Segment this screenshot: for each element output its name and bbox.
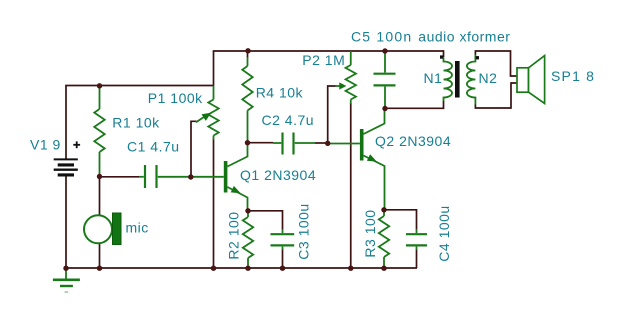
wire N2 top to speaker	[475, 51, 517, 76]
resistor R1	[94, 87, 104, 175]
svg-text:N1: N1	[424, 70, 443, 86]
node Q1 emitter	[245, 208, 250, 213]
svg-text:P1 100k: P1 100k	[148, 90, 203, 106]
wire mic top	[99, 177, 101, 216]
node mic/R1/C1	[97, 174, 102, 179]
ground	[53, 268, 80, 292]
svg-text:R1 10k: R1 10k	[112, 115, 160, 131]
wire battery top vertical	[65, 86, 67, 160]
node Q2 base	[325, 141, 330, 146]
svg-text:mic: mic	[126, 220, 149, 236]
wire collector node to C2	[248, 142, 274, 144]
node P1 ground	[211, 266, 216, 271]
battery plus sign	[73, 141, 80, 148]
potentiometer P2	[335, 51, 356, 104]
resistor R2	[243, 212, 253, 267]
wire riser to top rail	[213, 51, 215, 86]
wire battery bottom vertical	[65, 177, 67, 269]
node Q1 base	[188, 174, 193, 179]
svg-text:C3 100u: C3 100u	[296, 203, 312, 259]
transformer winding N1	[444, 58, 453, 101]
capacitor C2	[273, 133, 315, 155]
wire C4 bottom to ground rail	[416, 250, 418, 269]
node Q2 emitter	[381, 207, 386, 212]
transformer winding N2	[467, 55, 475, 105]
svg-text:SP1 8: SP1 8	[551, 68, 595, 84]
wire top-left rail	[65, 85, 213, 87]
wire transformer primary top stub	[443, 50, 445, 57]
transistor Q2	[330, 110, 385, 209]
node R1 top	[97, 83, 102, 88]
svg-text:C4 100u: C4 100u	[436, 205, 452, 261]
capacitor C4	[406, 229, 427, 250]
svg-text:R3 100: R3 100	[362, 209, 378, 257]
capacitor C5	[374, 53, 396, 106]
wire P1 wiper to base node	[191, 121, 197, 177]
wire mic node to C1	[100, 176, 140, 178]
node R2 ground	[245, 266, 250, 271]
svg-text:R4 10k: R4 10k	[256, 85, 304, 101]
wire emitter node to C3	[249, 211, 283, 230]
svg-text:C1 4.7u: C1 4.7u	[127, 139, 180, 155]
wire top rail	[213, 50, 444, 52]
wire N2 bottom to speaker	[475, 83, 517, 108]
wire C3 bottom to ground rail	[282, 250, 284, 269]
svg-text:audio xformer: audio xformer	[418, 29, 510, 45]
wire mic bottom	[99, 244, 101, 269]
node C3 ground	[280, 266, 285, 271]
node battery ground	[63, 266, 68, 271]
node R3 ground	[381, 266, 386, 271]
node P2 ground	[348, 266, 353, 271]
wire P1 bottom to ground rail	[213, 139, 215, 268]
battery V1	[54, 159, 78, 175]
node Q2 collector	[382, 106, 387, 111]
svg-text:Q2 2N3904: Q2 2N3904	[375, 133, 451, 149]
svg-text:C2 4.7u: C2 4.7u	[262, 112, 315, 128]
transformer phase dot N1	[440, 55, 443, 58]
transformer phase dot N2	[476, 56, 479, 59]
svg-text:V1 9: V1 9	[30, 137, 61, 153]
node C5 top	[382, 48, 387, 53]
potentiometer P1	[196, 86, 219, 141]
svg-text:Q1 2N3904: Q1 2N3904	[240, 167, 316, 183]
wire Q2 emitter node to C4	[385, 210, 417, 230]
microphone mic	[84, 213, 121, 245]
transformer core	[455, 61, 460, 98]
wire Q2 collector node to transformer primary	[385, 101, 444, 108]
svg-text:R2 100: R2 100	[226, 211, 242, 259]
node mic ground	[97, 266, 102, 271]
speaker SP1	[517, 56, 545, 104]
node Q1 collector	[245, 140, 250, 145]
svg-text:C5 100n: C5 100n	[351, 29, 412, 45]
node R4 top	[245, 48, 250, 53]
wire P2 bottom to ground rail	[350, 103, 352, 268]
wire C2 to Q2 base node	[315, 142, 328, 144]
svg-text:N2: N2	[479, 70, 498, 86]
wire P2 wiper to Q2 base node	[328, 86, 336, 143]
transistor Q1	[224, 144, 248, 210]
capacitor C3	[271, 229, 295, 250]
resistor R4	[247, 51, 249, 58]
svg-text:P2 1M: P2 1M	[302, 52, 345, 68]
capacitor C1	[139, 165, 224, 188]
resistor R3	[379, 211, 389, 267]
wire bottom ground rail	[65, 267, 417, 269]
